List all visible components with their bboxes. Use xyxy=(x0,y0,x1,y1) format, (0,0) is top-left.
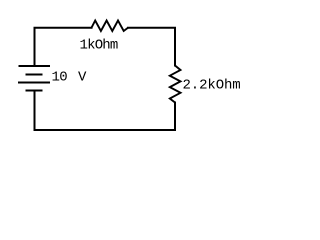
svg-text:10: 10 xyxy=(52,70,68,86)
battery V1 plate 4 (short, bottom) xyxy=(26,90,43,92)
svg-text:V: V xyxy=(78,70,87,86)
resistor R2 2.2kOhm (vertical zigzag, right) xyxy=(170,66,181,103)
battery V1 plate 3 (long) xyxy=(18,82,50,84)
battery V1 plate 1 (long, top) xyxy=(19,65,51,67)
battery V1 plate 2 (short) xyxy=(26,74,43,76)
wire top-left: left vertical upper segment and top wire to R1 xyxy=(35,28,92,66)
svg-text:1kOhm: 1kOhm xyxy=(80,38,118,54)
svg-text:2.2kOhm: 2.2kOhm xyxy=(183,77,241,93)
wire right-bottom: from R2 down, bottom wire, left vertical lower up to battery xyxy=(35,91,176,130)
resistor R1 1kOhm (horizontal zigzag, top) xyxy=(92,21,129,32)
wire top-right: from R1 to top-right corner and down to R2 xyxy=(128,28,175,66)
